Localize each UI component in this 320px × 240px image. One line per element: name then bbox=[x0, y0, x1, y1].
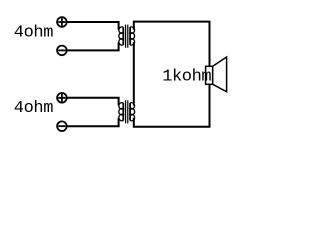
wire V1 plus lead to T1 primary bbox=[67, 22, 119, 30]
wire T1 secondary bottom to T2 secondary top bbox=[133, 42, 135, 105]
transformer T1 core bbox=[126, 25, 128, 48]
source V2 minus terminal bbox=[57, 121, 67, 131]
source V1 plus terminal bbox=[57, 17, 67, 27]
transformer T2 secondary winding (arcs bulge right from attach line) bbox=[130, 103, 135, 121]
wire V2 minus lead to T2 primary bbox=[67, 118, 119, 126]
wire T1 secondary top to top rail to speaker top bbox=[134, 22, 210, 67]
transformer T1 secondary winding (arcs bulge right from attach line) bbox=[130, 27, 135, 45]
speaker LS1 driver box bbox=[206, 66, 213, 84]
transformer T2 core bbox=[126, 100, 128, 123]
source V2 plus terminal bbox=[57, 93, 67, 103]
transformer T2 primary winding (arcs bulge left from attach line) bbox=[119, 103, 124, 121]
transformer T1 primary winding (arcs bulge left from attach line) bbox=[119, 27, 124, 45]
svg-text:1kohm: 1kohm bbox=[162, 68, 211, 87]
wire T2 secondary bottom to bottom rail to speaker bottom bbox=[134, 84, 210, 127]
wire V1 minus lead to T1 primary bbox=[67, 42, 119, 50]
svg-text:4ohm: 4ohm bbox=[14, 99, 53, 118]
wire V2 plus lead to T2 primary bbox=[67, 98, 119, 106]
source V1 minus terminal bbox=[57, 46, 67, 56]
svg-text:4ohm: 4ohm bbox=[14, 23, 53, 42]
speaker LS1 cone bbox=[213, 57, 227, 92]
